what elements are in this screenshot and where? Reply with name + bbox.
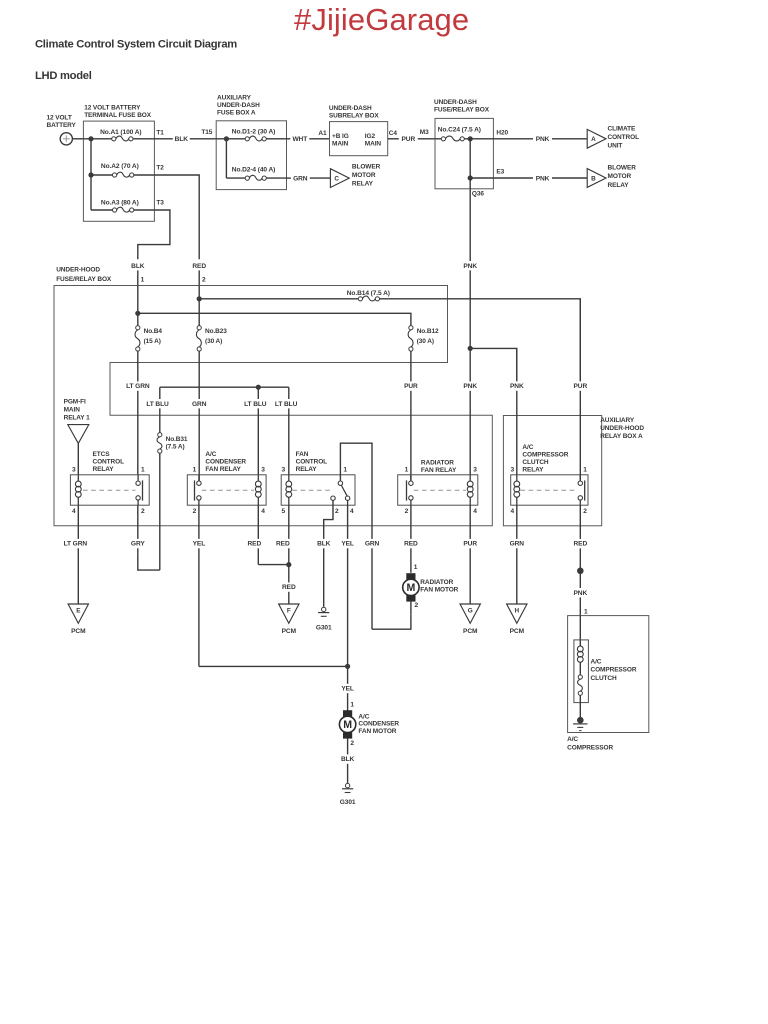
svg-text:GRN: GRN bbox=[192, 401, 207, 408]
connector E triangle to PCM bbox=[68, 604, 88, 623]
wire RED from A/C condenser fan relay pin 4 bbox=[257, 505, 259, 539]
svg-text:SUBRELAY BOX: SUBRELAY BOX bbox=[329, 113, 379, 120]
junction node BLK bus bbox=[135, 311, 140, 316]
svg-text:G301: G301 bbox=[316, 624, 332, 631]
svg-text:MAIN: MAIN bbox=[365, 140, 382, 147]
box 12 VOLT BATTERY TERMINAL FUSE BOX bbox=[83, 121, 154, 221]
svg-text:PNK: PNK bbox=[536, 175, 550, 182]
svg-text:FAN RELAY: FAN RELAY bbox=[205, 466, 241, 473]
svg-text:No.A1 (100 A): No.A1 (100 A) bbox=[100, 129, 141, 136]
fuse No.B4 (15 A) bbox=[135, 330, 140, 347]
svg-text:A/C: A/C bbox=[358, 713, 369, 720]
svg-text:3: 3 bbox=[261, 467, 265, 474]
svg-text:RELAY: RELAY bbox=[93, 466, 115, 473]
svg-text:RED: RED bbox=[573, 541, 587, 548]
svg-text:GRY: GRY bbox=[131, 541, 145, 548]
svg-text:PCM: PCM bbox=[510, 628, 525, 635]
svg-text:(30 A): (30 A) bbox=[205, 338, 222, 345]
svg-text:CONTROL: CONTROL bbox=[296, 459, 328, 466]
svg-text:BLK: BLK bbox=[131, 263, 145, 270]
wire YEL horizontal run to junction bbox=[199, 665, 348, 667]
svg-text:T15: T15 bbox=[201, 129, 212, 136]
junction node at fuse A2 bbox=[88, 172, 93, 177]
svg-text:RELAY BOX A: RELAY BOX A bbox=[600, 433, 643, 440]
svg-text:1: 1 bbox=[350, 702, 354, 709]
wire LT GRN from ETCS relay pin 4 to connector E bbox=[77, 505, 79, 539]
svg-text:CONDENSER: CONDENSER bbox=[358, 721, 399, 728]
svg-text:C4: C4 bbox=[389, 130, 398, 137]
svg-text:WHT: WHT bbox=[292, 136, 307, 143]
fuse No.B31 (7.5 A) bbox=[157, 437, 162, 449]
svg-text:RADIATOR: RADIATOR bbox=[420, 579, 453, 586]
wire battery to fuse box bbox=[72, 138, 83, 140]
svg-text:GRN: GRN bbox=[293, 176, 308, 183]
svg-text:F: F bbox=[287, 607, 291, 614]
svg-text:UNIT: UNIT bbox=[608, 143, 623, 150]
wire LT BLU middle drop to A/C condenser fan relay pin 3 bbox=[257, 387, 259, 399]
svg-text:2: 2 bbox=[335, 508, 339, 515]
connector C triangle bbox=[330, 169, 349, 188]
svg-text:UNDER-HOOD: UNDER-HOOD bbox=[56, 266, 100, 273]
wire YEL from fan control relay pin 4 to junction bbox=[347, 505, 349, 539]
svg-text:2: 2 bbox=[141, 508, 145, 515]
svg-text:1: 1 bbox=[405, 467, 409, 474]
svg-text:PGM-FI: PGM-FI bbox=[64, 398, 86, 405]
svg-text:No.B14 (7.5 A): No.B14 (7.5 A) bbox=[347, 290, 390, 297]
svg-text:RELAY: RELAY bbox=[522, 467, 544, 474]
wire YEL down to A/C condenser fan motor bbox=[347, 666, 349, 683]
svg-text:2: 2 bbox=[583, 508, 587, 515]
fuse No.A3 (80 A) bbox=[91, 209, 113, 211]
svg-text:M: M bbox=[407, 582, 416, 594]
svg-text:5: 5 bbox=[282, 508, 286, 515]
bus wire inside battery fuse box bbox=[83, 138, 111, 140]
connector triangle PGM-FI main relay 1 bbox=[68, 425, 89, 444]
wire WHT to subrelay box bbox=[287, 138, 291, 140]
box A/C COMPRESSOR bbox=[568, 616, 649, 733]
wire BLK vertical into box to junction bbox=[137, 286, 139, 326]
junction node E3 bbox=[468, 175, 473, 180]
wire Q36 down from under-dash fuse/relay box bbox=[469, 178, 471, 189]
relay FAN CONTROL RELAY bbox=[281, 475, 355, 505]
svg-text:No.B12: No.B12 bbox=[417, 328, 439, 335]
wire fan control relay pin 2 jog to BLK bbox=[324, 501, 333, 526]
wire GRN from A/C compressor clutch relay pin 4 to connector H bbox=[516, 505, 518, 539]
junction node RED bus bbox=[197, 296, 202, 301]
svg-text:4: 4 bbox=[72, 508, 76, 515]
fuse No.B23 (30 A) bbox=[196, 330, 201, 347]
svg-text:3: 3 bbox=[473, 467, 477, 474]
wire RED from radiator fan relay pin 2 to radiator fan motor bbox=[410, 505, 412, 539]
svg-text:No.A3 (80 A): No.A3 (80 A) bbox=[101, 200, 139, 207]
svg-text:MOTOR: MOTOR bbox=[352, 172, 376, 179]
wire LT BLU bus bracket bbox=[160, 386, 289, 388]
svg-text:2: 2 bbox=[405, 508, 409, 515]
svg-text:1: 1 bbox=[193, 467, 197, 474]
svg-text:RELAY: RELAY bbox=[296, 466, 318, 473]
svg-text:CONTROL: CONTROL bbox=[93, 459, 125, 466]
svg-text:FUSE BOX A: FUSE BOX A bbox=[217, 109, 256, 116]
wire BLK to ground G301 bottom bbox=[347, 738, 349, 754]
junction node LT BLU bus bbox=[256, 385, 261, 390]
svg-text:1: 1 bbox=[584, 609, 588, 616]
svg-text:PUR: PUR bbox=[463, 541, 477, 548]
svg-text:BLOWER: BLOWER bbox=[352, 164, 381, 171]
svg-text:UNDER-DASH: UNDER-DASH bbox=[217, 102, 260, 109]
svg-text:B: B bbox=[591, 175, 596, 182]
wire PNK to blower motor relay connector B bbox=[493, 177, 533, 179]
svg-text:LHD model: LHD model bbox=[35, 70, 92, 82]
svg-text:GRN: GRN bbox=[510, 541, 525, 548]
svg-text:LT BLU: LT BLU bbox=[244, 401, 267, 408]
wire GRY up to ETCS relay pin 2 bbox=[137, 505, 139, 539]
svg-text:IG2: IG2 bbox=[365, 133, 376, 140]
svg-text:No.D2-4 (40 A): No.D2-4 (40 A) bbox=[232, 166, 275, 173]
svg-text:RED: RED bbox=[276, 541, 290, 548]
relay A/C COMPRESSOR CLUTCH RELAY bbox=[511, 475, 588, 505]
svg-text:No.B31: No.B31 bbox=[166, 436, 188, 443]
svg-text:PCM: PCM bbox=[463, 628, 478, 635]
motor A/C CONDENSER FAN MOTOR bbox=[343, 710, 352, 716]
svg-text:A/C: A/C bbox=[567, 736, 578, 743]
svg-text:PUR: PUR bbox=[573, 383, 587, 390]
svg-text:FUSE/RELAY BOX: FUSE/RELAY BOX bbox=[56, 276, 112, 283]
wire PNK to A/C compressor clutch relay pin 3 bbox=[516, 348, 518, 381]
wire LT BLU left drop through fuse B31 bbox=[159, 387, 161, 399]
box UNDER-HOOD FUSE/RELAY BOX outline bbox=[54, 286, 492, 526]
connector A triangle bbox=[587, 129, 606, 148]
connector node RED/PNK bbox=[577, 568, 584, 575]
svg-text:Q36: Q36 bbox=[472, 191, 484, 198]
wire YEL from A/C condenser fan relay pin 2 bbox=[198, 505, 200, 539]
svg-text:12 VOLT BATTERY: 12 VOLT BATTERY bbox=[84, 105, 141, 112]
wire LT BLU right drop to fan control relay pin 3 bbox=[288, 387, 290, 399]
svg-text:Climate Control System Circuit: Climate Control System Circuit Diagram bbox=[35, 38, 237, 50]
wire LT GRN from fuse B4 to ETCS relay pin 1 bbox=[137, 351, 139, 381]
svg-text:CLIMATE: CLIMATE bbox=[608, 125, 636, 132]
fuse No.B12 (30 A) bbox=[408, 330, 413, 347]
svg-text:BATTERY: BATTERY bbox=[47, 122, 77, 129]
svg-text:G: G bbox=[468, 607, 473, 614]
svg-text:BLK: BLK bbox=[317, 541, 331, 548]
ground G301 bottom bbox=[345, 783, 349, 787]
wire PNK branch to A/C compressor clutch relay pin 3 bbox=[470, 348, 517, 380]
svg-text:3: 3 bbox=[72, 467, 76, 474]
svg-text:FAN: FAN bbox=[296, 451, 309, 458]
wire PNK down to A/C compressor bbox=[579, 571, 581, 588]
svg-text:LT GRN: LT GRN bbox=[64, 541, 88, 548]
svg-text:YEL: YEL bbox=[193, 541, 206, 548]
svg-text:1: 1 bbox=[583, 467, 587, 474]
svg-text:+B IG: +B IG bbox=[332, 133, 349, 140]
svg-text:1: 1 bbox=[141, 277, 145, 284]
svg-text:RED: RED bbox=[192, 263, 206, 270]
svg-text:YEL: YEL bbox=[341, 541, 354, 548]
box AUXILIARY UNDER-DASH FUSE BOX A bbox=[216, 121, 286, 190]
junction node H20/Q36 bbox=[468, 136, 473, 141]
svg-text:No.B23: No.B23 bbox=[205, 328, 227, 335]
svg-text:CLUTCH: CLUTCH bbox=[522, 459, 549, 466]
box UNDER-DASH SUBRELAY BOX bbox=[330, 122, 388, 156]
connector B triangle bbox=[587, 169, 606, 188]
svg-text:2: 2 bbox=[350, 740, 354, 747]
svg-text:4: 4 bbox=[473, 508, 477, 515]
svg-text:UNDER-HOOD: UNDER-HOOD bbox=[600, 425, 644, 432]
svg-text:12 VOLT: 12 VOLT bbox=[47, 115, 72, 122]
svg-text:4: 4 bbox=[511, 508, 515, 515]
svg-text:H: H bbox=[515, 607, 520, 614]
wire PUR to under-dash fuse/relay box bbox=[388, 138, 399, 140]
svg-text:T2: T2 bbox=[156, 165, 164, 172]
svg-text:GRN: GRN bbox=[365, 541, 380, 548]
svg-text:PNK: PNK bbox=[463, 263, 477, 270]
svg-text:YEL: YEL bbox=[341, 686, 354, 693]
svg-text:MOTOR: MOTOR bbox=[608, 173, 632, 180]
connector F triangle to PCM bbox=[279, 604, 299, 623]
svg-text:MAIN: MAIN bbox=[64, 406, 81, 413]
svg-text:A/C: A/C bbox=[522, 444, 533, 451]
svg-text:PNK: PNK bbox=[536, 136, 550, 143]
svg-text:PCM: PCM bbox=[71, 628, 86, 635]
svg-text:COMPRESSOR: COMPRESSOR bbox=[591, 667, 637, 674]
svg-text:AUXILIARY: AUXILIARY bbox=[600, 417, 635, 424]
relay RADIATOR FAN RELAY bbox=[398, 475, 478, 505]
svg-text:1: 1 bbox=[343, 467, 347, 474]
svg-text:4: 4 bbox=[261, 508, 265, 515]
svg-text:PCM: PCM bbox=[282, 628, 297, 635]
svg-text:PNK: PNK bbox=[510, 383, 524, 390]
svg-text:RED: RED bbox=[247, 541, 261, 548]
svg-text:RELAY 1: RELAY 1 bbox=[64, 415, 91, 422]
svg-text:LT BLU: LT BLU bbox=[146, 401, 169, 408]
svg-text:FUSE/RELAY BOX: FUSE/RELAY BOX bbox=[434, 107, 490, 114]
svg-text:C: C bbox=[334, 176, 339, 183]
svg-text:BLK: BLK bbox=[341, 756, 355, 763]
svg-text:A/C: A/C bbox=[591, 658, 602, 665]
svg-text:No.B4: No.B4 bbox=[144, 328, 163, 335]
svg-text:4: 4 bbox=[350, 508, 354, 515]
svg-text:FAN MOTOR: FAN MOTOR bbox=[358, 728, 396, 735]
svg-text:A1: A1 bbox=[318, 130, 327, 137]
svg-text:PNK: PNK bbox=[463, 383, 477, 390]
svg-text:1: 1 bbox=[141, 467, 145, 474]
svg-text:3: 3 bbox=[282, 467, 286, 474]
svg-text:TERMINAL FUSE BOX: TERMINAL FUSE BOX bbox=[84, 112, 152, 119]
svg-text:COMPRESSOR: COMPRESSOR bbox=[567, 744, 613, 751]
wire to internal ground bbox=[579, 695, 581, 717]
svg-text:E3: E3 bbox=[496, 169, 504, 176]
wire PNK to climate control unit bbox=[493, 138, 533, 140]
wire into fuse box A bbox=[216, 138, 245, 140]
wire PNK to radiator fan relay pin 3 bbox=[469, 348, 471, 381]
fuse No.A2 (70 A) bbox=[91, 174, 113, 176]
wire from fuse B31 down through box to GRY u-turn bbox=[159, 453, 161, 570]
box AUXILIARY UNDER-HOOD RELAY BOX A bbox=[503, 416, 601, 526]
wire fan control relay pin 1 hook to GRN drop bbox=[340, 443, 372, 526]
svg-text:A: A bbox=[591, 136, 596, 143]
wire PUR from radiator fan relay pin 4 to connector G bbox=[469, 505, 471, 539]
svg-text:FAN RELAY: FAN RELAY bbox=[421, 467, 457, 474]
svg-text:PUR: PUR bbox=[401, 136, 415, 143]
relay ETCS CONTROL RELAY bbox=[70, 475, 149, 505]
svg-text:UNDER-DASH: UNDER-DASH bbox=[434, 99, 477, 106]
svg-text:2: 2 bbox=[415, 602, 419, 609]
svg-text:RELAY: RELAY bbox=[608, 182, 630, 189]
wire GRN from fuse B23 to A/C condenser fan relay pin 1 bbox=[198, 351, 200, 399]
motor RADIATOR FAN MOTOR bbox=[406, 573, 415, 579]
wire BLK from T1 to T15 bbox=[154, 138, 172, 140]
svg-text:A/C: A/C bbox=[205, 451, 216, 458]
svg-text:1: 1 bbox=[414, 564, 418, 571]
connector G triangle to PCM bbox=[460, 604, 480, 623]
svg-text:M: M bbox=[343, 719, 352, 731]
svg-text:FAN MOTOR: FAN MOTOR bbox=[420, 586, 458, 593]
wire bus with fuse B14 to PUR drop bbox=[199, 298, 358, 300]
svg-text:No.C24 (7.5 A): No.C24 (7.5 A) bbox=[438, 127, 481, 134]
wire from T2 down to RED pin 2 bbox=[154, 175, 199, 259]
svg-text:G301: G301 bbox=[340, 799, 356, 806]
svg-text:LT BLU: LT BLU bbox=[275, 401, 298, 408]
wire BLK from fan control relay pin 2 to ground G301 bbox=[323, 526, 325, 539]
battery symbol bbox=[60, 133, 72, 145]
svg-text:(15 A): (15 A) bbox=[144, 338, 161, 345]
wire GRN from fan control relay pin 1 drop to radiator fan motor pin 2 bbox=[371, 526, 373, 539]
junction node PNK split bbox=[468, 346, 473, 351]
svg-text:AUXILIARY: AUXILIARY bbox=[217, 95, 252, 102]
svg-text:No.D1-2 (30 A): No.D1-2 (30 A) bbox=[232, 128, 275, 135]
wire RED vertical to junction bbox=[198, 286, 200, 326]
svg-text:3: 3 bbox=[511, 467, 515, 474]
svg-text:T3: T3 bbox=[156, 200, 164, 207]
svg-text:BLOWER: BLOWER bbox=[608, 165, 637, 172]
junction node in fuse box A bbox=[224, 136, 229, 141]
A/C compressor clutch assembly bbox=[574, 640, 589, 703]
box UNDER-DASH FUSE/RELAY BOX bbox=[435, 118, 493, 188]
svg-text:2: 2 bbox=[193, 508, 197, 515]
junction node YEL bbox=[345, 664, 350, 669]
svg-text:M3: M3 bbox=[420, 129, 429, 136]
wire PUR to A/C compressor clutch relay pin 1 bbox=[579, 299, 581, 382]
svg-text:CLUTCH: CLUTCH bbox=[591, 675, 618, 682]
wire GRN to blower motor relay connector C bbox=[287, 177, 291, 179]
wire from T3 down to BLK pin 1 bbox=[138, 210, 170, 259]
svg-text:No.A2 (70 A): No.A2 (70 A) bbox=[101, 163, 139, 170]
svg-text:(7.5 A): (7.5 A) bbox=[166, 444, 185, 451]
svg-text:RADIATOR: RADIATOR bbox=[421, 459, 454, 466]
ground G301 left bbox=[322, 607, 326, 611]
junction node RED merge bbox=[286, 562, 291, 567]
svg-text:BLK: BLK bbox=[175, 136, 189, 143]
ground inside A/C compressor bbox=[577, 717, 584, 724]
wire RED from A/C compressor clutch relay pin 2 bbox=[579, 505, 581, 539]
wire from PGM-FI relay to ETCS relay pin 3 bbox=[77, 443, 79, 474]
wire RED from fan control relay pin 5 bbox=[288, 505, 290, 539]
svg-text:CONTROL: CONTROL bbox=[608, 134, 640, 141]
junction node at fuse A1 bbox=[88, 136, 93, 141]
svg-text:RELAY: RELAY bbox=[352, 181, 374, 188]
svg-text:CONDENSER: CONDENSER bbox=[205, 459, 246, 466]
connector H triangle to PCM bbox=[507, 604, 527, 623]
wire down to fuse D2-4 bbox=[225, 139, 227, 178]
svg-text:RED: RED bbox=[282, 584, 296, 591]
wire PUR from fuse B12 to radiator fan relay pin 1 bbox=[410, 351, 412, 381]
svg-text:2: 2 bbox=[202, 277, 206, 284]
svg-text:T1: T1 bbox=[156, 130, 164, 137]
svg-text:(30 A): (30 A) bbox=[417, 338, 434, 345]
svg-text:H20: H20 bbox=[496, 129, 508, 136]
svg-text:PNK: PNK bbox=[573, 590, 587, 597]
svg-text:ETCS: ETCS bbox=[93, 451, 111, 458]
svg-text:UNDER-DASH: UNDER-DASH bbox=[329, 105, 372, 112]
wire bus to fuse B12 bbox=[138, 313, 411, 325]
relay A/C CONDENSER FAN RELAY bbox=[187, 475, 266, 505]
svg-text:COMPRESSOR: COMPRESSOR bbox=[522, 452, 568, 459]
svg-text:RED: RED bbox=[404, 541, 418, 548]
svg-text:PUR: PUR bbox=[404, 383, 418, 390]
svg-text:LT GRN: LT GRN bbox=[126, 383, 150, 390]
wire into A/C compressor clutch coil bbox=[579, 616, 581, 646]
svg-text:#JijieGarage: #JijieGarage bbox=[294, 2, 469, 37]
svg-text:MAIN: MAIN bbox=[332, 140, 349, 147]
wire down to E3 row bbox=[469, 139, 471, 178]
wire RED down to connector F bbox=[288, 565, 290, 583]
